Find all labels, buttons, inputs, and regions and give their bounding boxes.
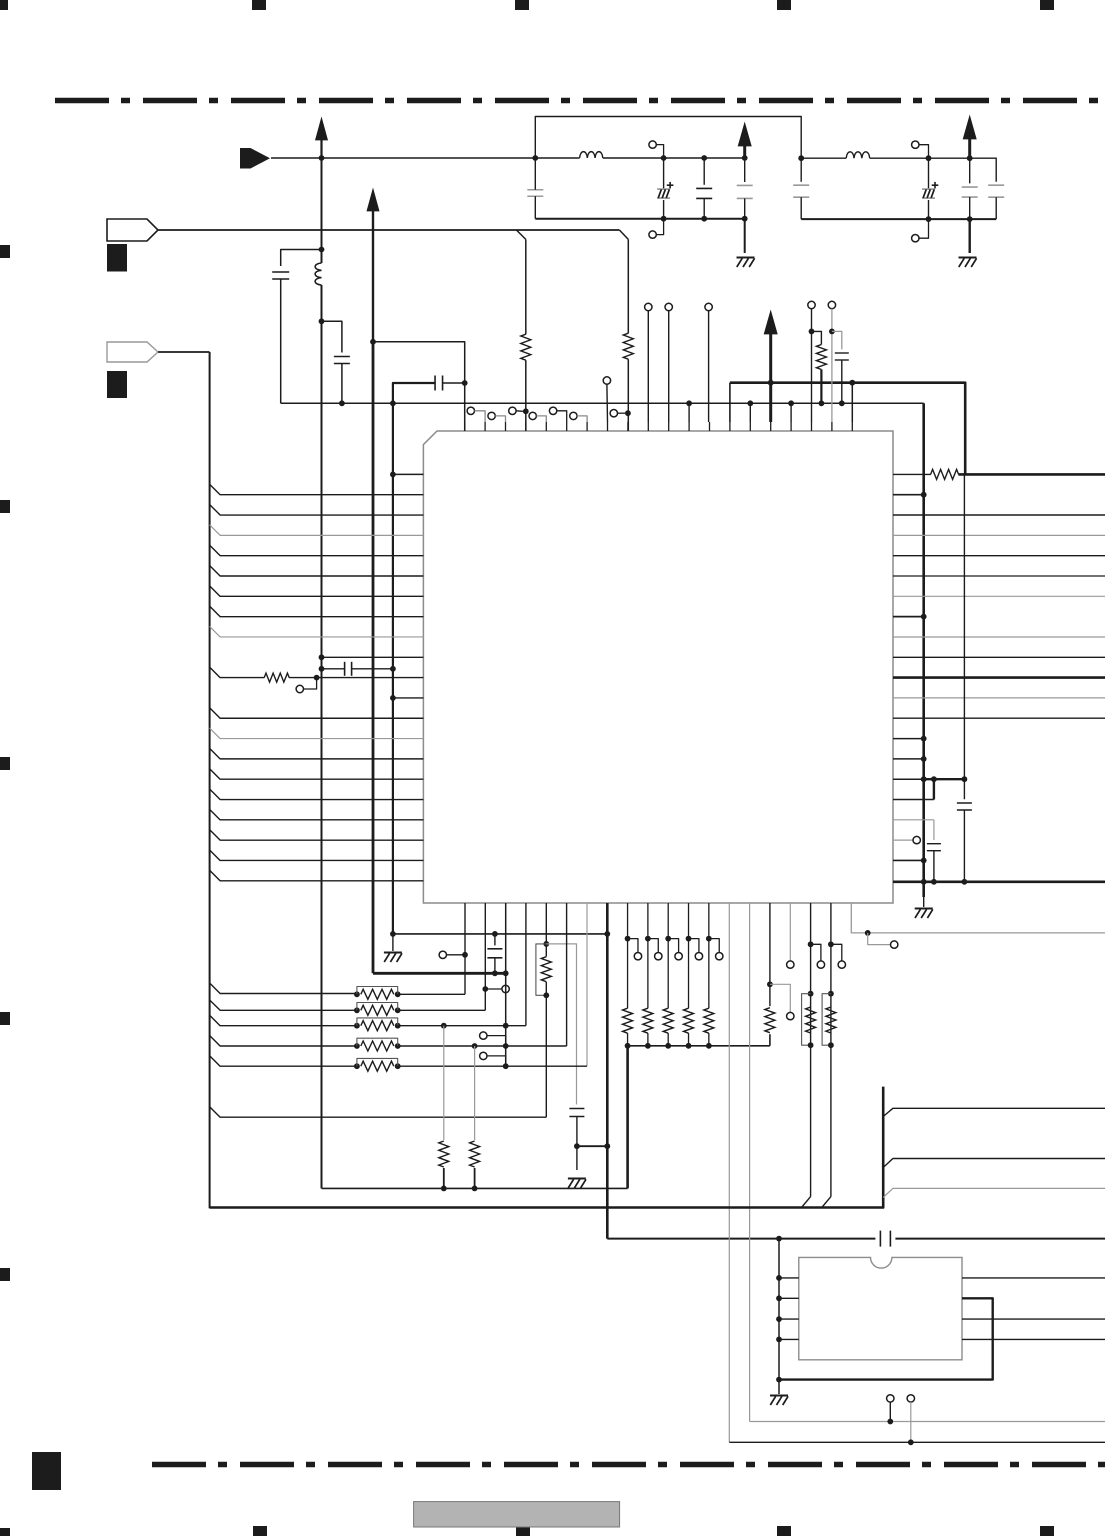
registration mark top 3 — [777, 0, 791, 10]
wire pin b7 thick down — [606, 903, 609, 1239]
wire pin r13 to gnd bus — [893, 738, 924, 740]
test point TP3 — [912, 141, 919, 148]
test point TP19 pin r18 — [893, 839, 913, 841]
wire pin b1 down — [484, 903, 486, 1010]
test point TP24 pin b17 — [811, 944, 821, 961]
wire pin b13 down (grey) — [728, 903, 730, 1442]
junction C10 top — [967, 155, 973, 161]
wire ground trunk x393 — [392, 403, 394, 934]
wire pin r2 — [893, 514, 1105, 516]
wire pin b0 down — [464, 903, 466, 994]
capacitor C3 — [434, 376, 436, 391]
junction U2 pin4 — [776, 1337, 782, 1343]
wire b17 join rail B — [802, 1197, 811, 1208]
wire resistor bank rail — [628, 1045, 770, 1047]
test point TP23 pin b16 — [789, 903, 791, 961]
wire power spine horizontal — [373, 972, 506, 975]
wire pin r15 — [893, 778, 924, 780]
registration mark bottom 1 — [253, 1526, 267, 1536]
capacitor C6 — [703, 158, 705, 185]
capacitor C12 branch — [832, 331, 842, 349]
wire C17 link to b7 — [577, 1145, 607, 1147]
wire U2 pin7 out — [962, 1318, 1105, 1320]
test point TP26 — [868, 933, 891, 945]
resistor bank R7-R11 — [625, 936, 631, 942]
wire pin r11 (grey) — [893, 697, 1105, 699]
junction filter1 out — [742, 155, 748, 161]
wire rail up to pin b15 — [769, 1034, 771, 1046]
capacitor C13 — [322, 668, 345, 670]
wire rail A — [322, 1187, 628, 1189]
inductor L3 — [801, 157, 846, 159]
wire to cap C2 — [322, 321, 342, 352]
test point TP27 tap — [480, 1032, 487, 1039]
wire pin r12 — [893, 717, 1105, 719]
resistor R6 with jumper — [536, 944, 546, 995]
connector flag CN2 — [107, 219, 158, 241]
wire fan branch 1010 + resistor R16 — [210, 1000, 357, 1010]
junction C10 bottom — [967, 216, 973, 222]
test point TP20 pin b0 — [439, 951, 446, 958]
resistor R2 vertical — [627, 239, 629, 333]
wire bus branch 1158 — [883, 1159, 1105, 1168]
capacitor C16 — [494, 934, 496, 946]
wire right thin vertical — [963, 474, 965, 799]
junction x322 cap C13 — [319, 666, 325, 672]
junction node A — [319, 155, 325, 161]
junction t18 branch — [829, 329, 835, 335]
wire left bus vertical — [209, 352, 211, 1208]
test point TP22 pin b15 — [770, 984, 790, 1012]
wire pin b5 down — [566, 903, 568, 1046]
test point TP5 — [509, 407, 516, 414]
test point TP28 tap — [480, 1052, 487, 1059]
capacitor C10 (grey) — [969, 158, 971, 183]
registration mark left 1 — [0, 245, 10, 258]
junction b19 testpoint — [865, 930, 871, 936]
wire pin r16 riser — [893, 799, 934, 801]
ground G6 — [770, 1395, 788, 1397]
wire U2 pin6 loop — [779, 1298, 993, 1379]
registration mark bottom-left corner — [0, 1528, 10, 1536]
wire pin r19 to gnd bus — [893, 859, 924, 861]
junction U2 pin1 — [776, 1275, 782, 1281]
title block box (grey) — [414, 1502, 620, 1527]
wire fan branch 1046 + resistor R18 — [210, 1036, 357, 1047]
capacitor C2 — [334, 356, 350, 358]
signal input wedge CN1 — [240, 148, 270, 169]
wire rail to ground — [744, 219, 746, 253]
wire pin r3 (grey) — [893, 534, 1105, 536]
wire pin b18 chain — [830, 903, 832, 1197]
test point TP14 pin t10 — [665, 303, 672, 310]
power arrow VCC1 — [738, 123, 751, 146]
wire rail B — [210, 1087, 884, 1208]
test point TP16 pin t17 — [808, 301, 815, 308]
wire pin t14 to ground rail — [749, 403, 751, 422]
junction gnd trunk rail — [390, 400, 396, 406]
capacitor C7 (grey) — [744, 158, 746, 182]
capacitor C17 — [569, 1108, 584, 1110]
ground G5 — [568, 1178, 586, 1180]
ground G2 — [959, 257, 977, 259]
ground G1 — [737, 257, 755, 259]
junction gnd trunk pin l0 — [390, 472, 396, 478]
capacitor C1 — [272, 271, 289, 273]
junction filter1 in — [532, 155, 538, 161]
wire filter1 bottom rail — [535, 218, 744, 220]
wire bus branch 1108 — [883, 1108, 1105, 1116]
test point TP4 — [912, 235, 919, 242]
wire pin r4 — [893, 555, 1105, 557]
test point TP30 — [907, 1395, 914, 1402]
junction U2 pin3 — [776, 1316, 782, 1322]
wire filter2 bottom rail — [801, 218, 996, 220]
wire CN2 jog 1 — [516, 230, 525, 239]
wire x464 down to IC pin T0 — [464, 383, 466, 431]
test point TP6 — [610, 410, 617, 417]
wire pin b6 down (grey) — [586, 903, 588, 1066]
registration mark top 4 — [1040, 0, 1054, 10]
capacitor C18 — [879, 1231, 881, 1247]
connector flag CN3 (grey) — [107, 342, 158, 362]
registration mark bottom 3 — [777, 1526, 791, 1536]
junction R1 testpoint — [523, 408, 529, 414]
wire arrow stem node A — [320, 138, 322, 158]
test point TP7 hook pin t1 — [467, 407, 474, 414]
wire rail2 to ground — [969, 219, 971, 253]
test point TP13 pin t9 — [645, 303, 652, 310]
wire C1 to gnd rail — [280, 279, 282, 403]
wire pin b4 chain — [545, 903, 547, 944]
resistor R12 pin b15 — [765, 1008, 775, 1033]
wire U2 left bus — [778, 1239, 780, 1394]
junction C6 bottom — [701, 216, 707, 222]
junction gnd trunk pin l11 — [390, 695, 396, 701]
capacitor C15 — [957, 802, 972, 804]
junction b7 gnd spur — [604, 931, 610, 937]
resistor R13 with jumper — [808, 991, 814, 997]
junction t17 branch — [809, 329, 815, 335]
resistor R20 vertical — [443, 1026, 445, 1140]
page fold mark bottom-left — [32, 1452, 61, 1490]
test point TP15 pin t12 — [705, 303, 712, 310]
electrolytic capacitor C9 — [928, 158, 930, 189]
wire C3 left lead to GND trunk — [393, 383, 435, 403]
junction cap C3 right — [462, 380, 468, 386]
wire b13 out right — [729, 1441, 1105, 1443]
resistor R1 vertical — [525, 239, 527, 334]
test point TP9 hook pin t4 — [529, 412, 536, 419]
wire pin b3 down — [525, 903, 527, 1026]
registration mark bottom 4 — [1040, 1526, 1054, 1536]
registration mark left 5 — [0, 1268, 10, 1281]
wire fan pin l10 with resistor R4 — [210, 667, 265, 678]
junction subIC bus cap line — [776, 1236, 782, 1242]
capacitor C11 (grey) — [988, 184, 1004, 186]
test point TP21 pin b1 — [485, 988, 502, 990]
power arrow VCC3 pin t15 — [764, 311, 777, 334]
junction x322 y250 — [319, 247, 325, 253]
wire pin r17 + capacitor C14 (grey) — [893, 819, 934, 821]
wire pin l9 — [322, 656, 424, 658]
wire L1 down — [321, 285, 323, 321]
test point TP29 — [887, 1395, 894, 1402]
junction t19 vdd — [849, 380, 855, 386]
wire b18 join rail B — [822, 1197, 831, 1208]
wire b7 cap line — [607, 1238, 875, 1240]
junction C9 bottom — [926, 216, 932, 222]
wire pin l0 — [393, 473, 424, 475]
wire fan branch 993 + resistor R15 — [210, 983, 357, 994]
power arrow supply 1 — [316, 118, 328, 140]
IC U2 body — [799, 1257, 962, 1359]
wire to cap C1 — [281, 250, 322, 267]
wire bus branch 1188 (grey) — [883, 1188, 1105, 1197]
black tab under CN2 — [107, 244, 127, 272]
power arrow supply 2 — [367, 189, 379, 211]
wire filter2 mid — [929, 157, 970, 159]
junction gnd trunk C13 — [390, 666, 396, 672]
IC U1 main LSI body — [423, 431, 893, 903]
junction C5 bottom — [661, 216, 667, 222]
junction C7 bottom — [742, 216, 748, 222]
wire pin r0 + resistor R5 — [893, 473, 931, 475]
wire x373 thick down to power spine — [372, 342, 375, 974]
wire pin r9 — [893, 656, 1105, 658]
IC left pin fan wires — [210, 484, 424, 495]
inductor L2 — [535, 157, 579, 159]
test point TP11 hook pin t6 — [570, 412, 577, 419]
wire pin r8 (grey) — [893, 636, 1105, 638]
test point TP17 pin t18 — [828, 301, 835, 308]
junction R2 testpoint — [625, 410, 631, 416]
wire b8 thick down to rail A — [626, 1046, 629, 1189]
ground G3 — [923, 897, 925, 907]
wire b4 tap to C17 — [546, 944, 576, 1105]
wire fan branch 1066 + resistor R19 — [210, 1056, 357, 1067]
wire vdd line top right — [730, 383, 965, 475]
wire bottom gnd spur — [393, 933, 607, 935]
test point TP18 — [296, 685, 303, 692]
wire pin b19 out right (grey) — [851, 903, 1105, 933]
wire node A to filter input — [322, 157, 536, 159]
wire ground rail horizontal — [281, 402, 924, 404]
junction t15 vdd — [768, 380, 774, 386]
registration mark left 2 — [0, 500, 10, 513]
registration mark bottom 2 — [516, 1526, 530, 1536]
wire pin r1 to gnd bus — [893, 494, 924, 496]
wire CN3 to left bus — [158, 351, 210, 353]
test point TP8 hook pin t2 — [488, 412, 495, 419]
IC top pin stubs — [464, 422, 466, 431]
wire filter2 out leg — [970, 158, 997, 182]
registration mark top 1 — [252, 0, 266, 10]
wire pin b14 down (grey) — [749, 903, 751, 1422]
wire pin r20 gnd rail right — [893, 880, 1105, 883]
wire x322 long vertical — [321, 321, 323, 1188]
ground G4 — [392, 934, 394, 951]
registration mark left 4 — [0, 1012, 10, 1025]
capacitor C4 (grey) — [527, 189, 543, 191]
wire pin r7 to gnd bus — [893, 616, 924, 618]
registration mark top 2 — [515, 0, 529, 10]
wire bypass top — [535, 117, 801, 159]
wire CN2 jog 2 — [619, 230, 628, 239]
junction elec C5 top — [661, 155, 667, 161]
wire pin t11 to ground rail — [688, 403, 690, 422]
capacitor C8 (grey) — [800, 158, 802, 182]
junction x322 pin l9 — [319, 654, 325, 660]
resistor R14 with jumper — [828, 991, 834, 997]
wire pin r6 (grey) — [893, 595, 1105, 597]
junction U2 pin2 — [776, 1295, 782, 1301]
inductor L1 on x322 — [321, 250, 323, 264]
wire pin r10 thick — [893, 676, 1105, 679]
power arrow VCC2 — [963, 116, 976, 139]
wire filter1 out — [704, 157, 745, 159]
wire CN2 net horizontal — [158, 229, 619, 231]
junction R4 testpoint — [314, 675, 320, 681]
wire x373 to x464 corner — [373, 342, 465, 383]
resistor R3 with branch — [812, 331, 822, 344]
junction elec C9 top — [926, 155, 932, 161]
junction C2 gnd — [339, 400, 345, 406]
wire C2 to gnd rail — [341, 364, 343, 404]
test point TP2 — [649, 231, 656, 238]
dash-dot frame border top — [55, 98, 1105, 103]
wire pin t19 up to vdd line — [851, 383, 853, 422]
electrolytic capacitor C5 — [663, 158, 665, 189]
wire pin t16 to ground rail — [790, 403, 792, 422]
registration mark top-left corner — [0, 0, 8, 10]
wire pin l11 — [393, 697, 424, 699]
registration mark left 3 — [0, 757, 10, 770]
wire U2 pin5 out — [962, 1277, 1105, 1279]
wire pin b17 chain — [810, 903, 812, 1197]
junction x373 y342 — [370, 339, 376, 345]
test point TP12 pin t7 — [603, 377, 610, 384]
test point TP1 — [649, 141, 656, 148]
wire C3 right lead — [443, 382, 465, 384]
resistor R21 vertical — [474, 1046, 476, 1140]
wire right bus vertical (gnd) — [922, 403, 925, 897]
black tab under CN3 — [107, 371, 127, 398]
wire pin b2 power — [505, 903, 507, 1066]
wire b14 out right (grey) — [750, 1421, 1105, 1423]
wire U2 pin8 out — [962, 1338, 1105, 1340]
test point TP25 pin b18 — [831, 944, 842, 961]
wire fan branch 1117 — [210, 1107, 547, 1118]
wire pin r5 — [893, 575, 1105, 577]
junction C6 top — [701, 155, 707, 161]
wire pin r14 to gnd bus — [893, 758, 924, 760]
junction x322 y321 — [319, 318, 325, 324]
wire input to node A — [271, 157, 322, 159]
wire filter1 mid — [664, 157, 705, 159]
wire arrow2 stem — [372, 209, 374, 342]
wire pin t13 up to vdd line — [729, 383, 731, 422]
wire node A down — [321, 158, 323, 250]
dash-dot frame border bottom — [152, 1462, 1105, 1467]
test point TP10 hook pin t5 — [549, 407, 556, 414]
junction U2 bus bottom — [776, 1377, 782, 1383]
junction filter2 in — [798, 155, 804, 161]
wire fan branch 1026 + resistor R17 — [210, 1015, 357, 1025]
